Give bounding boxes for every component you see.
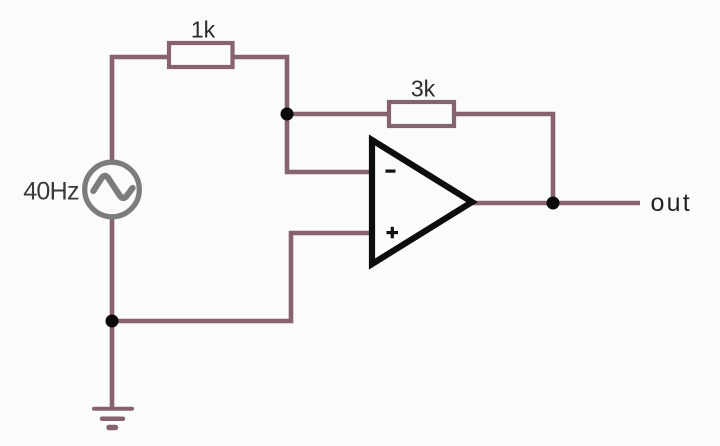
svg-text:40Hz: 40Hz (23, 177, 79, 205)
svg-text:out: out (651, 189, 692, 217)
svg-text:1k: 1k (191, 17, 216, 43)
svg-text:3k: 3k (411, 76, 436, 102)
